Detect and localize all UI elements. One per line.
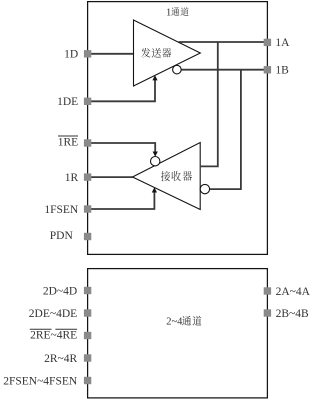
- pin 2FSEN~4FSEN: [84, 377, 91, 384]
- pin 1R: [84, 173, 91, 180]
- svg-text:1DE: 1DE: [57, 96, 78, 108]
- wire 1DE enable: [88, 78, 155, 102]
- wire branch A to receiver input: [201, 42, 218, 166]
- svg-text:2RE~4RE: 2RE~4RE: [30, 330, 77, 342]
- wire 1RE enable: [88, 143, 156, 154]
- svg-text:2~4: 2~4: [166, 317, 183, 328]
- svg-text:2B~4B: 2B~4B: [276, 308, 309, 320]
- pin 2D~4D: [84, 287, 91, 294]
- svg-text:1A: 1A: [275, 37, 290, 49]
- svg-text:2A~4A: 2A~4A: [276, 286, 311, 298]
- pin 1D: [84, 50, 91, 57]
- arrowhead 1FSEN into receiver: [152, 187, 157, 192]
- wire 1A output line: [179, 41, 268, 43]
- receiver enable bubble (top edge): [151, 157, 160, 166]
- wire 1D input: [88, 53, 134, 55]
- channel-1 block outline: [88, 2, 268, 255]
- transmitter inverting output bubble: [173, 65, 182, 74]
- op-amp style driver U1 (transmitter): [134, 20, 201, 86]
- receiver inverting input bubble (right edge): [200, 184, 209, 193]
- svg-text:2FSEN~4FSEN: 2FSEN~4FSEN: [3, 375, 78, 387]
- svg-text:1B: 1B: [275, 65, 289, 77]
- receiver U2: [133, 143, 201, 210]
- pin 1DE: [84, 98, 91, 105]
- pin 1RE: [84, 139, 91, 146]
- pin 2RE~4RE: [84, 332, 91, 339]
- svg-text:1FSEN: 1FSEN: [44, 204, 79, 216]
- svg-text:PDN: PDN: [50, 230, 74, 242]
- svg-text:1D: 1D: [64, 49, 78, 61]
- arrowhead 1RE into receiver bubble: [153, 152, 158, 157]
- arrowhead 1DE into driver: [152, 75, 157, 80]
- pin 2DE~4DE: [84, 309, 91, 316]
- wire branch B to receiver inverting input: [210, 70, 241, 189]
- svg-text:2D~4D: 2D~4D: [43, 285, 77, 297]
- value label 发送器 (transmitter): [141, 48, 150, 58]
- svg-text:2DE~4DE: 2DE~4DE: [29, 308, 77, 320]
- pin 2A~4A: [264, 287, 271, 294]
- value label 接收器 (receiver): [161, 171, 170, 181]
- svg-text:1R: 1R: [65, 172, 79, 184]
- svg-text:1: 1: [166, 8, 171, 19]
- pin PDN: [84, 233, 91, 240]
- pin 1FSEN: [84, 205, 91, 212]
- wire 1R output: [88, 176, 133, 178]
- pin 1A: [264, 39, 271, 46]
- channel 2-4 block outline: [88, 269, 268, 398]
- pin 2R~4R: [84, 354, 91, 361]
- pin 2B~4B: [264, 309, 271, 316]
- wire 1FSEN enable: [88, 190, 155, 210]
- svg-text:1RE: 1RE: [58, 136, 78, 148]
- pin 1B: [264, 66, 271, 73]
- svg-text:2R~4R: 2R~4R: [44, 353, 77, 365]
- wire 1B output line: [181, 69, 267, 71]
